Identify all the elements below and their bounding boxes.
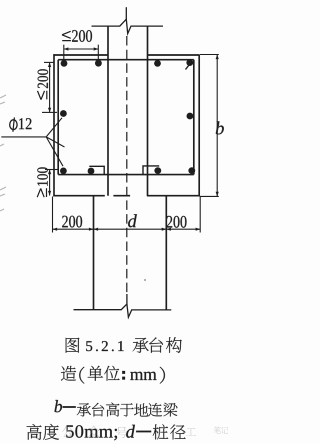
- pile/beam centerline (chain line): [126, 36, 128, 295]
- bottom dim label 200 left: [62, 216, 82, 228]
- rebar label 12 text: [19, 118, 31, 129]
- top dimension label 200: [72, 30, 92, 42]
- bottom dimension line: [53, 228, 201, 230]
- phi symbol of rebar label: [10, 120, 17, 130]
- left dimension label ≤200 (rotated): [38, 69, 49, 99]
- centerline solid segment into bottom break: [126, 294, 128, 305]
- b dim bottom extension line: [200, 195, 219, 197]
- bottom dim arrow far-left: [53, 228, 58, 231]
- centerline stub above top break: [125, 7, 127, 19]
- rebar dot bottom mid-right: [154, 167, 161, 174]
- ground-beam left edge: [107, 26, 109, 196]
- scan speck near pile: [144, 279, 146, 281]
- bottom dim right extension line: [199, 197, 201, 233]
- tail mark on top-right rebar dot: [186, 65, 190, 70]
- bottom dim arrows at pile left edge: [89, 228, 94, 231]
- bottom dim arrows at pile right edge: [162, 228, 167, 231]
- left dim B up arrow: [48, 170, 51, 175]
- left dim B down arrow: [48, 191, 51, 196]
- top dimension label ≤ sign: [62, 31, 71, 40]
- cap top edge right part: [148, 54, 200, 56]
- right bottom bar hook: [143, 166, 159, 175]
- pile right edge: [165, 196, 167, 310]
- gray watermark 公众号王工笔记: [62, 426, 228, 438]
- stirrup right line: [193, 60, 195, 175]
- break line at bottom of pile: [74, 304, 172, 317]
- left dim A up arrow: [48, 62, 51, 67]
- b dim top extension line: [200, 54, 219, 56]
- leader branches to rebar dots: [46, 118, 64, 166]
- cap right edge: [198, 55, 200, 197]
- bottom dim arrow far-right: [196, 228, 201, 231]
- rebar dot top-right: [186, 59, 193, 66]
- rebar dot top-left: [61, 60, 68, 67]
- stirrup bottom bar line: [58, 174, 194, 176]
- ground-beam right edge: [147, 26, 149, 196]
- b dim up arrow: [216, 55, 219, 60]
- note line 1: b—承台高于地连梁: [55, 400, 178, 417]
- rebar dot right side: [187, 113, 194, 120]
- cap top edge left part: [53, 54, 108, 56]
- caption line 2: 造（单位：mm）: [61, 366, 165, 384]
- left dim A extension tick bottom: [42, 111, 57, 113]
- left bottom bar hook: [89, 166, 104, 174]
- b dim down arrow: [216, 192, 219, 197]
- leader line of phi12: [1, 136, 46, 138]
- top dimension line: [64, 48, 99, 50]
- rebar dot bottom-left: [60, 168, 67, 175]
- rebar dot left side: [60, 110, 67, 117]
- break line at top of ground-beam: [92, 19, 164, 33]
- cap left edge: [53, 54, 55, 196]
- left dimension label ≥100 (rotated): [37, 167, 48, 197]
- top dimension right arrow: [94, 47, 99, 50]
- top dimension left arrow: [64, 47, 69, 50]
- cap bottom edge (interrupted by beam): [53, 195, 199, 197]
- left dim A down arrow: [48, 108, 51, 113]
- left dim A extension tick top: [44, 61, 54, 63]
- scan artifact marks at left edge: [0, 95, 6, 211]
- stirrup left line: [57, 60, 59, 175]
- bottom dim left extension line: [52, 197, 54, 233]
- left dim B extension tick: [45, 169, 59, 171]
- rebar dot top mid-left: [95, 60, 102, 67]
- bottom dim label d (pile diameter): [128, 214, 137, 227]
- left dim A line: [49, 62, 51, 112]
- caption line 1: 图 5.2.1 承台构: [66, 337, 182, 353]
- top dimension extension ticks: [64, 45, 99, 62]
- rebar dot bottom mid-left: [88, 168, 95, 175]
- pile left edge: [93, 196, 95, 310]
- b dimension line: [216, 55, 218, 197]
- bottom dim label 200 right: [167, 216, 187, 228]
- stirrup top bar line: [58, 59, 194, 61]
- rebar dot bottom-right: [188, 167, 195, 174]
- left dim B line: [49, 170, 51, 196]
- note line 2: 高度 50mm; d—桩径: [27, 424, 186, 440]
- rebar dot top mid-right: [154, 60, 161, 67]
- b dimension label: [216, 121, 224, 134]
